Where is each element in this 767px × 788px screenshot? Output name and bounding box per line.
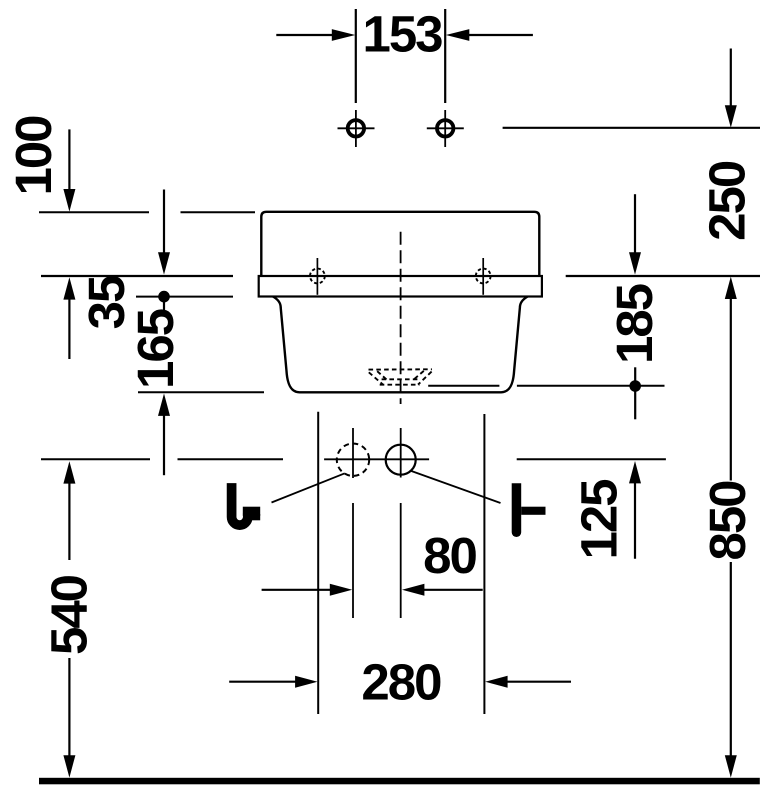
svg-text:100: 100: [5, 116, 62, 196]
reference line outlet level: [41, 458, 150, 460]
dimension 540 lower arrow: [68, 658, 70, 756]
dimension 35 upper arrow: [163, 190, 165, 254]
reference line basin top left: [39, 211, 149, 213]
svg-text:185: 185: [606, 284, 663, 364]
reference line basin bottom left: [138, 391, 264, 393]
measuring point dot 165: [158, 291, 170, 303]
dimension 80 right arrow: [402, 584, 424, 596]
water connection hidden circle: [337, 444, 369, 476]
siphon symbol: [232, 483, 261, 525]
svg-text:80: 80: [423, 527, 476, 584]
waste outlet circle: [386, 445, 416, 475]
dimension 185 upper arrow: [634, 194, 636, 253]
dimension 125 lower arrow: [629, 461, 641, 483]
basin tank outline: [261, 212, 539, 276]
svg-text:250: 250: [699, 161, 756, 241]
dimension 250 lower arrow / 850 upper arrow: [725, 277, 737, 299]
leader line right: [411, 471, 501, 503]
reference line hole level right: [503, 127, 760, 129]
centre line of basin: [400, 232, 402, 404]
hidden hole left on rim: [310, 258, 325, 295]
dimension 153 left arrow: [276, 34, 333, 36]
reference line rim bottom with dot: [136, 296, 233, 298]
hidden drain outline: [369, 369, 432, 385]
dimension 100 arrow: [68, 129, 70, 189]
dimension 250 upper arrow: [730, 49, 732, 107]
svg-text:280: 280: [361, 653, 441, 710]
dimension 280 right arrow: [485, 676, 507, 688]
extension line right hole: [444, 9, 446, 103]
reference line rim top right: [566, 275, 760, 277]
svg-text:850: 850: [699, 481, 756, 561]
dimension 280 left arrow: [229, 681, 297, 683]
dimension 540 upper arrow: [63, 461, 75, 483]
crosshair solid circle: [400, 428, 402, 478]
leader line left: [272, 473, 345, 502]
basin rim band: [259, 276, 542, 297]
svg-text:153: 153: [362, 5, 442, 62]
wall outlet symbol: [512, 483, 546, 537]
extension line 280 left: [317, 412, 319, 714]
hidden hole right on rim: [476, 258, 491, 295]
svg-text:540: 540: [40, 575, 97, 655]
measuring point dot 125: [629, 380, 641, 392]
dimension 80 left arrow: [262, 589, 331, 591]
dimension 165 line below dot: [163, 301, 165, 313]
dimension 35 lower arrow: [63, 277, 75, 299]
faucet hole right: [427, 110, 464, 147]
extension line 280 right: [483, 414, 485, 714]
dimension 165 lower arrow: [158, 394, 170, 416]
dimension 850 lower arrow: [730, 562, 732, 756]
crosshair dashed circle: [352, 428, 354, 478]
floor line: [39, 778, 760, 785]
basin body outline: [273, 297, 528, 393]
faucet hole left: [338, 110, 375, 147]
svg-text:125: 125: [571, 480, 628, 560]
reference line basin inner bottom: [428, 385, 499, 387]
extension line left hole: [355, 9, 357, 103]
reference line rim top left: [41, 275, 233, 277]
svg-text:165: 165: [127, 309, 184, 389]
dimension 153 right arrow: [468, 34, 533, 36]
